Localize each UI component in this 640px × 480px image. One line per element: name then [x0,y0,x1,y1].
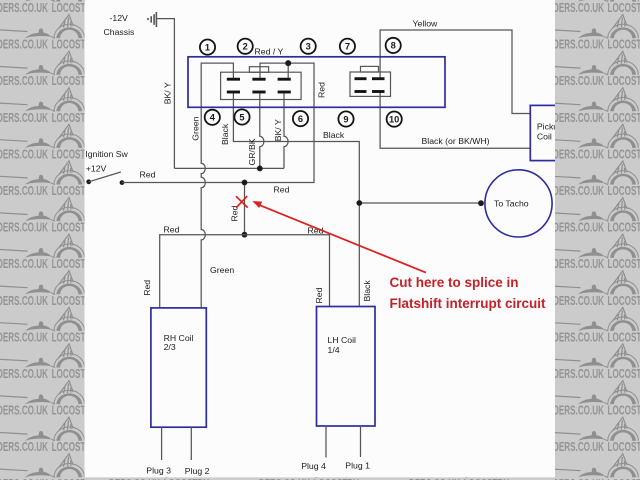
wire: tacho branch [359,202,481,204]
svg-text:Cut here to splice in: Cut here to splice in [390,275,519,290]
wire: red feed from switch, up to pins 2/3 jumper [122,63,314,182]
pin label 10 [387,112,402,127]
svg-text:7: 7 [345,42,350,52]
svg-text:8: 8 [391,41,396,51]
4-pin connector body [350,72,391,96]
wire: LH coil to plug 4 [325,426,327,458]
wire: black pin4 to LH coil and tacho bus [233,93,359,306]
svg-text:Red: Red [314,287,324,303]
wire: pin2 jumper up [260,63,288,78]
pin 2 blade [252,78,265,81]
RH coil box [151,308,206,427]
6-pin connector body [221,72,302,99]
CDI connector block (blue outline) [188,57,445,108]
svg-text:1/4: 1/4 [328,345,340,355]
wire: black pin10 to pickup coil [380,92,530,149]
pin 10 blade [372,90,385,93]
svg-text:BK/ Y: BK/ Y [163,82,173,104]
node: tacho terminal [478,200,484,206]
node: junction pins 2/3 red jumper [285,60,291,66]
svg-text:LH Coil: LH Coil [328,335,357,345]
wire: BK/Y pin6 to ground bus (hops black) [284,93,288,168]
svg-text:2: 2 [243,42,248,52]
svg-text:Flatshift interrupt circuit: Flatshift interrupt circuit [390,296,547,311]
svg-text:5: 5 [239,112,244,122]
left watermark strip [0,0,97,480]
svg-text:Black: Black [323,130,345,140]
red annotation text [390,275,547,311]
pin label 8 [386,38,401,53]
svg-text:Red: Red [274,185,290,195]
wire: green pin1 to RH coil with hops [201,63,233,308]
pin label 3 [301,39,316,54]
svg-text:Black: Black [220,123,230,145]
svg-text:Plug 3: Plug 3 [146,465,171,475]
pin label 6 [293,111,308,126]
wire: pin3 stub up [287,63,289,78]
pin 5 blade [252,91,265,94]
svg-text:Black (or BK/WH): Black (or BK/WH) [422,136,490,146]
svg-text:+12V: +12V [86,164,107,174]
pin label 9 [338,111,353,126]
node: junction red feed/branch [242,180,248,186]
svg-text:Plug 1: Plug 1 [345,460,370,470]
svg-text:Red: Red [316,82,326,98]
svg-text:Chassis: Chassis [104,27,136,37]
pickup coil box [530,105,574,160]
svg-text:Black: Black [362,280,372,302]
wire: LH coil to plug 1 [360,426,362,457]
pin 3 blade [278,78,291,81]
chassis ground symbol [147,12,156,27]
pin number circles [200,38,402,127]
svg-text:Coil: Coil [537,132,552,142]
red annotation: cut mark X [236,196,248,208]
pin label 5 [234,109,249,124]
LH coil box [317,307,376,427]
wire: red branch to coils (cut point) [244,183,246,235]
wire: ground bus horizontal [174,167,284,169]
svg-text:9: 9 [343,114,348,124]
node: junction branch/coil bus [242,232,248,238]
node: junction GR/BK on ground bus [257,166,263,172]
pin label 4 [205,110,220,125]
red annotation: arrow [259,205,426,273]
wire: GR/BK pin5 to ground bus (hops black) [260,93,264,168]
svg-text:2/3: 2/3 [164,342,176,352]
6-pin connector key bump [249,67,268,73]
svg-text:Green: Green [210,265,234,275]
right watermark strip [553,0,640,480]
wire: yellow pin8 to pickup coil [380,30,530,114]
pin 9 blade [355,90,367,93]
pin 8 blade [372,77,385,80]
pin label 2 [238,39,253,54]
wire: red coil bus RH to LH [160,235,330,308]
wire: RH coil to plug 2 [190,427,192,460]
svg-text:-12V: -12V [110,13,129,23]
svg-text:Red: Red [142,280,152,296]
wire: ground BK/Y down to ground bus [156,19,174,169]
pin 6 blade [278,91,291,94]
svg-text:Plug 2: Plug 2 [185,466,210,476]
pin label 1 [200,40,215,55]
svg-text:Yellow: Yellow [413,19,439,29]
pin 4 blade [227,91,240,94]
pin label 7 [340,39,355,54]
ignition switch [86,172,124,185]
svg-text:Red / Y: Red / Y [255,47,284,57]
svg-text:3: 3 [306,42,311,52]
svg-text:To Tacho: To Tacho [494,198,529,208]
svg-text:Red: Red [164,224,180,234]
svg-text:Plug 4: Plug 4 [301,461,326,471]
svg-text:Green: Green [190,116,200,140]
pin 7 blade [355,77,367,80]
svg-text:Red: Red [140,170,156,180]
svg-text:6: 6 [298,114,303,124]
bottom watermark strip [85,454,556,480]
wire: RH coil to plug 3 [161,427,163,460]
svg-text:10: 10 [389,114,399,124]
svg-text:1: 1 [205,42,210,52]
svg-text:4: 4 [210,113,216,123]
svg-text:BK/ Y: BK/ Y [273,119,283,141]
tacho circle [485,170,552,237]
node: junction black/tacho [356,200,362,206]
svg-text:GR/BK: GR/BK [247,138,257,165]
svg-text:Red: Red [229,205,239,221]
pin 1 blade [227,78,240,81]
svg-text:Ignition Sw: Ignition Sw [85,149,128,159]
4-pin connector key bump [361,66,379,72]
